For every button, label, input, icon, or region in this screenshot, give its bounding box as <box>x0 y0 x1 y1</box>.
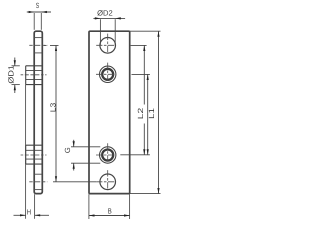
svg-text:L2: L2 <box>136 108 145 120</box>
svg-text:ØD2: ØD2 <box>97 9 113 18</box>
svg-text:ØD1: ØD1 <box>6 65 15 84</box>
svg-text:G: G <box>63 147 72 153</box>
svg-text:L1: L1 <box>147 108 156 119</box>
svg-text:S: S <box>36 1 39 10</box>
svg-text:H: H <box>27 208 31 217</box>
svg-text:B: B <box>108 206 112 215</box>
svg-text:L3: L3 <box>48 103 57 113</box>
